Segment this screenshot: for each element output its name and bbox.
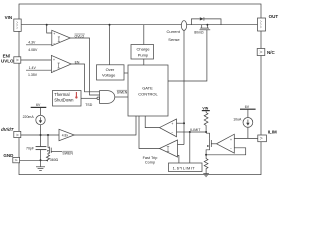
node dot VIN tap for OVLO — [46, 24, 48, 26]
wire fast trip - input from 1.6x block — [178, 156, 179, 164]
svg-text:Current: Current — [167, 29, 181, 34]
pin ILIM — [258, 130, 277, 142]
svg-text:−: − — [171, 131, 173, 135]
ground — [36, 160, 45, 170]
svg-text:ILIMIT: ILIMIT — [190, 128, 201, 132]
wire + input from ILIM pin / 10uA — [234, 137, 257, 139]
pin VIN — [5, 15, 22, 32]
wire fast trip + input from sense — [178, 144, 185, 146]
wire gate drive to FET gate — [168, 30, 207, 81]
pin dV/dT — [1, 127, 21, 138]
op-amp EN comparator — [51, 55, 71, 72]
svg-text:4.8x: 4.8x — [62, 133, 69, 137]
supply 6V for dVdT source — [31, 103, 47, 115]
svg-text:dV/dT: dV/dT — [1, 127, 15, 132]
transistor ILIM clamp FET — [206, 133, 211, 156]
svg-text:1.4V: 1.4V — [29, 66, 37, 70]
svg-text:Over: Over — [106, 67, 115, 72]
svg-text:ILIM: ILIM — [268, 130, 277, 135]
svg-text:Thermal: Thermal — [54, 92, 69, 97]
wire OVLO + input tap — [47, 25, 52, 33]
wire 4.8x output to gate control — [74, 116, 136, 135]
svg-text:Comp: Comp — [145, 161, 155, 165]
svg-text:−: − — [53, 42, 55, 46]
wire to charge pump — [143, 25, 145, 45]
node dot cap/gnd junction — [40, 159, 42, 161]
svg-text:+: + — [53, 58, 55, 62]
op-amp OVLO comparator — [52, 30, 71, 45]
block Charge Pump — [131, 45, 154, 60]
node SWEN label — [117, 90, 128, 94]
svg-text:+: + — [171, 122, 173, 126]
svg-text:10uA: 10uA — [233, 117, 242, 121]
svg-text:70pF: 70pF — [26, 146, 34, 150]
pin EN/UVLO — [1, 54, 21, 64]
svg-text:−: − — [230, 147, 232, 151]
resistor 360 Ohm — [46, 155, 49, 161]
wire ILIM comp output to gate control — [145, 116, 159, 128]
block Over Voltage — [97, 65, 125, 80]
wire OVLO output to AND gate — [70, 38, 99, 95]
wire GND to dVdT network — [20, 159, 48, 161]
wire - input feedback loop — [206, 148, 246, 155]
wire dV/dT node — [21, 134, 59, 136]
resistor ILIMIT pull-up — [204, 113, 208, 133]
value 1.4V / 1.35V threshold — [26, 66, 51, 77]
wire op-amp output to clamp gate — [211, 143, 216, 145]
svg-text:OUT: OUT — [269, 14, 279, 19]
wire SWEN to gate control — [115, 96, 128, 98]
svg-text:TSD: TSD — [85, 103, 92, 107]
svg-text:GND: GND — [3, 153, 14, 158]
svg-text:+: + — [230, 138, 232, 142]
transistor pass FET 80mOhm — [200, 25, 211, 30]
node dot over-voltage tap — [109, 24, 111, 26]
svg-text:UVLO: UVLO — [1, 59, 14, 64]
op-amp ILIM regulation amplifier — [217, 134, 235, 153]
block 1.6*ILIMIT — [169, 163, 203, 172]
node OVLO label — [75, 34, 85, 38]
svg-text:Sense: Sense — [168, 37, 180, 42]
pin OUT — [258, 14, 279, 31]
block GATE CONTROL — [128, 65, 168, 116]
pin N/C — [257, 49, 275, 56]
svg-text:220mA: 220mA — [23, 115, 35, 119]
value 4.3V / 4.08V threshold — [26, 41, 52, 52]
wire EN + input — [21, 59, 52, 61]
svg-text:Charge: Charge — [137, 46, 151, 51]
transistor dVdT discharge FET — [47, 135, 51, 155]
svg-text:80mΩ: 80mΩ — [194, 31, 204, 35]
pin GND — [3, 153, 19, 163]
supply 6V for 10uA source — [240, 105, 256, 118]
svg-text:N/C: N/C — [267, 50, 276, 55]
svg-text:4.3V: 4.3V — [28, 41, 36, 45]
wire sense line down to comparators — [183, 30, 185, 144]
wire ILIM comp + input from sense — [177, 122, 185, 124]
wire to over voltage block — [109, 25, 111, 65]
resistor ILIMIT to ground — [204, 155, 208, 174]
current sense element (ellipse) — [181, 21, 186, 31]
svg-text:CONTROL: CONTROL — [138, 92, 158, 97]
svg-text:1.35V: 1.35V — [28, 73, 38, 77]
op-amp ILIM comparator — [160, 119, 177, 137]
svg-text:6V: 6V — [36, 103, 41, 107]
thermometer icon — [75, 92, 77, 97]
supply VIN pull-up for ILIMIT — [202, 106, 210, 112]
op-amp fast trip comparator — [160, 140, 178, 157]
svg-text:EN: EN — [75, 61, 80, 65]
svg-text:−: − — [53, 68, 55, 72]
diode body diode of pass FET — [191, 17, 221, 25]
svg-text:VIN: VIN — [5, 15, 13, 20]
wire charge pump to gate control — [143, 59, 145, 65]
node ILIMIT — [189, 128, 207, 133]
svg-text:4.08V: 4.08V — [28, 48, 38, 52]
svg-text:Voltage: Voltage — [102, 72, 116, 77]
amplifier 4.8x — [59, 129, 74, 140]
capacitor 70pF — [26, 135, 46, 160]
gate AND (gate enable logic) — [97, 91, 115, 104]
svg-text:GATE: GATE — [142, 86, 153, 91]
wire fast trip output to gate control — [139, 116, 160, 149]
wire EN output to AND gate — [71, 64, 99, 92]
wire ILIM comp - input from ILIMIT — [177, 131, 190, 133]
wire ILIMIT to 1.6x block — [189, 132, 191, 163]
IC boundary — [19, 4, 261, 175]
node SWEN label (discharge) — [62, 151, 73, 155]
svg-text:Pump: Pump — [138, 53, 149, 58]
svg-text:SWEN: SWEN — [62, 152, 73, 156]
svg-text:360Ω: 360Ω — [50, 158, 59, 162]
svg-text:VIN: VIN — [202, 106, 208, 110]
wire SWEN to discharge gate — [51, 150, 62, 152]
svg-text:Fast Trip: Fast Trip — [143, 156, 158, 160]
svg-text:OVLO: OVLO — [75, 34, 85, 38]
svg-text:ShutDown: ShutDown — [54, 98, 74, 103]
svg-text:+: + — [53, 32, 55, 36]
thermal shutdown block U-TSD — [53, 91, 82, 107]
svg-text:SWEN: SWEN — [117, 91, 128, 95]
svg-text:6V: 6V — [245, 105, 250, 109]
node dot sense to ILIM comparator — [183, 122, 185, 124]
wire main VIN-OUT rail — [21, 24, 257, 26]
wire TSD to AND bubble — [81, 97, 97, 99]
current source 220mA — [23, 115, 46, 125]
current source 10uA — [233, 117, 253, 127]
svg-text:1.6*ILIMIT: 1.6*ILIMIT — [173, 165, 196, 170]
wire OV to gate control — [124, 72, 128, 74]
node dot FET source stub — [206, 24, 208, 26]
